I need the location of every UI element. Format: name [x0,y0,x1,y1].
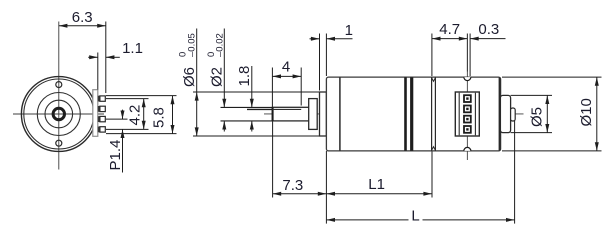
extension line at gearhead face (bottom) [325,151,327,224]
dimension 1.8 line lower [250,121,254,132]
gearhead collar Ø6 (side view) [320,92,327,136]
gearhead output stage ring 2 [410,77,413,150]
mounting hole top [56,82,62,88]
dimension L line [326,218,514,222]
dimension Ø2 label [209,67,226,87]
dimension L label [409,207,423,224]
dimension Ø6 line [195,29,199,137]
svg-text:5.8: 5.8 [151,107,168,128]
connector block inner line right [474,93,476,136]
gearhead front plate inner line [339,77,341,150]
svg-text:L1: L1 [368,176,385,193]
bearing boss circle [45,100,73,128]
dimension 4 extension line left [271,68,273,108]
dimension 1 extension line right [325,34,327,77]
dimension 1.1 extension line (pin root) [97,53,99,90]
dimension L1 line [326,192,432,196]
connector pin 3 (end view) [98,116,106,122]
svg-text:L: L [411,207,419,224]
motor body right end cap line [499,78,501,151]
dimension 4.7 line [432,37,468,41]
dimension Ø6 tolerance lower (-0.05) [187,33,198,57]
dimension 6.3 label [72,9,93,26]
dimension 5.8 label [151,107,168,128]
dimension Ø10 label [578,98,595,126]
mounting hole bottom [56,140,62,146]
joint chamfer notch top [432,78,436,82]
dimension Ø10 line [595,77,599,151]
output shaft (side view) [272,107,309,121]
gearhead/motor joint line left [431,77,433,150]
gearhead collar circle (Ø6) [37,93,80,136]
dimension Ø2 tolerance lower (-0.02) [215,33,226,57]
end view vertical centerline [58,22,60,170]
encoder cap dome mark bottom [464,147,471,151]
dimension 7.3 line [273,192,327,196]
dimension 4.2 line [142,99,146,130]
svg-text:Ø10: Ø10 [578,98,595,126]
dimension 4 label [282,59,290,76]
dimension Ø10 extension line bottom [502,150,602,152]
svg-text:1: 1 [345,22,353,39]
dimension 1 label [345,22,353,39]
housing inner chamfer circle [24,79,94,149]
svg-text:0.3: 0.3 [478,21,499,38]
dimension 6.3 line [59,24,106,28]
dimension 4.7 label [439,21,460,38]
bearing boss (side view) [309,99,318,130]
extension line at shaft tip (bottom) [272,121,274,198]
end view horizontal centerline [13,113,104,115]
dimension P1.4 / 4.2 shared extension line (pin 4 centre) [106,128,149,130]
svg-text:4: 4 [282,59,290,76]
gearhead/motor joint line right [434,77,436,150]
dimension 4.2 label [127,105,144,126]
dimension 0.3 extension line [469,34,471,77]
dimension Ø2 tolerance upper (0) [206,52,217,57]
joint chamfer notch bottom [432,147,436,151]
dimension Ø6 label [181,67,198,87]
dimension Ø5 extension line top [511,94,552,96]
svg-text:1.8: 1.8 [236,66,253,87]
svg-text:7.3: 7.3 [282,177,303,194]
gearhead output stage ring 1 [404,77,407,150]
dimension 1 line left tail [310,37,320,41]
dimension 4.7 extension line right [466,34,468,72]
dimension 0.3 label [478,21,499,38]
shaft flat line [272,108,301,110]
dimension Ø5 line [545,95,549,132]
shaft top edge extension line [221,106,273,108]
dimension 1 line right tail [326,37,352,41]
motor body outline (Ø10) [326,77,500,151]
dimension 1.8 line upper [250,66,254,107]
svg-text:Ø5: Ø5 [529,107,546,127]
dimension 7.3 label [282,177,303,194]
dimension 4.7 extension line left [431,34,433,77]
dimension 4 line [272,74,301,78]
shaft flat edge extension line [247,108,272,110]
svg-text:–0.05: –0.05 [187,33,198,57]
dimension P1.4 lower tail [121,129,125,172]
encoder connector centerline [466,72,468,161]
connector pin 4 (side view) [463,125,472,134]
dimension P1.4 label [107,140,124,171]
dimension Ø6 tolerance upper (0) [178,52,189,57]
svg-text:6.3: 6.3 [72,9,93,26]
dimension L1 label [368,176,385,193]
dimension 5.8 extension line top [106,95,177,97]
connector pin 4 (end view) [98,127,106,133]
dimension 1.1 line left tail [88,55,98,59]
svg-text:–0.02: –0.02 [215,33,226,57]
output shaft circle (Ø2) [53,108,64,119]
rear shaft stub [511,108,516,121]
dimension P1.4 extension line (pin 3 centre) [106,118,128,120]
dimension Ø10 extension line top [502,76,602,78]
connector block inner line left [458,93,460,136]
dimension Ø6 extension line bottom [193,135,320,137]
dimension 0.3 line tail [470,37,505,41]
shaft bottom edge extension line [221,120,273,122]
dimension 1.1 line right tail [106,55,120,59]
svg-text:Ø6: Ø6 [181,67,198,87]
svg-text:4.7: 4.7 [439,21,460,38]
dimension Ø2 line upper [222,29,226,108]
dimension Ø6 extension line top [193,91,320,93]
svg-text:Ø2: Ø2 [209,67,226,87]
encoder cap dome mark top [464,77,471,81]
dimension Ø5 extension line bottom [511,132,552,134]
dimension 5.8 extension line bottom [106,133,177,135]
dimension Ø2 line lower [222,121,226,132]
connector pin 3 (side view) [463,115,472,124]
connector pin 1 (end view) [98,96,106,102]
svg-text:4.2: 4.2 [127,105,144,126]
connector pin 2 (end view) [98,106,106,112]
dimension Ø5 label [529,107,546,127]
dimension 6.3 extension line (pin tips) [105,22,107,94]
extension line at gearhead/motor joint (bottom) [431,151,433,198]
motor housing outer circle (Ø10) [21,77,96,152]
dimension 4.2 extension line (pin 1 centre) [106,98,149,100]
svg-text:P1.4: P1.4 [107,140,124,171]
connector housing (end view) [93,90,98,137]
extension line at rear shaft tip (bottom) [514,118,516,224]
dimension 1.8 label [236,66,253,87]
connector pin 2 (side view) [463,105,472,114]
dimension P1.4 upper tail [121,110,125,120]
dimension 1.1 label [122,40,143,57]
dimension 4 extension line right [300,68,302,106]
side view horizontal centerline [264,113,524,115]
svg-text:1.1: 1.1 [122,40,143,57]
dimension 5.8 line [171,96,175,134]
encoder connector block (side view) [455,92,479,136]
dimension 1 extension line left [319,34,321,91]
connector pin 1 (side view) [463,94,472,103]
rear end cap Ø5 [500,95,510,132]
